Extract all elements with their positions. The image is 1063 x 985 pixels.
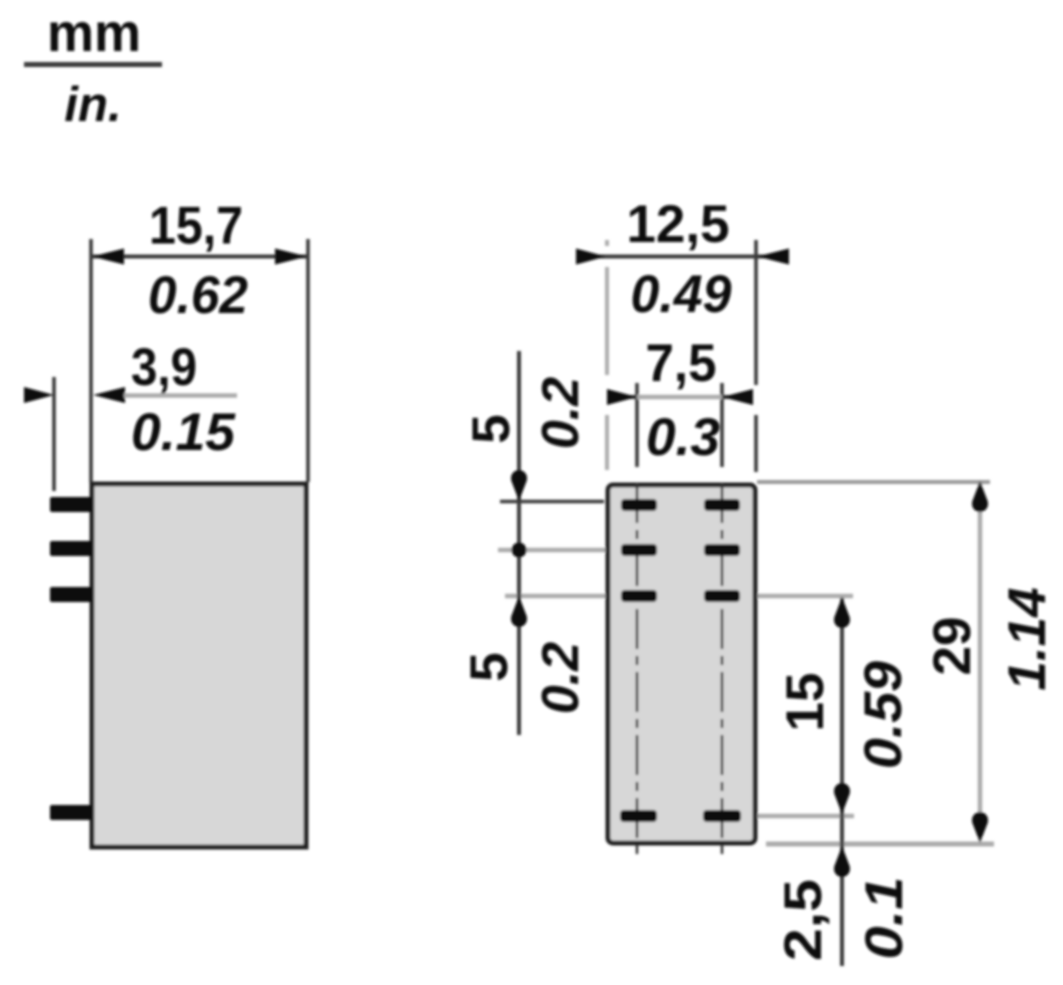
pin 4 side bbox=[50, 805, 92, 820]
row4 reference line gray bbox=[662, 814, 854, 819]
teardrop arrow down at row4 bbox=[834, 783, 850, 814]
arrow 7,5 right bbox=[722, 389, 753, 405]
svg-text:2,5: 2,5 bbox=[774, 879, 833, 961]
extension line 7,5 right bbox=[720, 383, 724, 467]
pin 1 side bbox=[50, 497, 92, 512]
pin 2 side bbox=[50, 541, 92, 556]
svg-text:in.: in. bbox=[64, 78, 121, 132]
pin pad row4 right bbox=[703, 810, 741, 822]
pin pad row1 left bbox=[621, 499, 657, 511]
pin pad row2 right bbox=[704, 544, 740, 556]
extension line 12,5 right (dashed) bbox=[754, 240, 758, 472]
svg-text:1.14: 1.14 bbox=[998, 587, 1057, 690]
svg-text:15,7: 15,7 bbox=[149, 197, 243, 256]
arrow 12,5 right (outside, pointing left) bbox=[757, 249, 789, 265]
svg-text:mm: mm bbox=[47, 3, 141, 63]
extension line left body edge bbox=[89, 239, 93, 482]
dimension 7,5 right tail bbox=[722, 395, 753, 399]
svg-text:5: 5 bbox=[462, 414, 521, 443]
dot at row2 bbox=[512, 543, 527, 558]
svg-text:0.62: 0.62 bbox=[148, 266, 248, 325]
svg-text:12,5: 12,5 bbox=[627, 195, 730, 254]
pin pad row3 left bbox=[621, 590, 657, 602]
dimension 7,5 left tail bbox=[608, 395, 637, 399]
extension line 12,5 left (gray dashed) bbox=[605, 240, 609, 470]
pin pad row1 right bbox=[704, 499, 740, 511]
svg-text:0.2: 0.2 bbox=[532, 377, 590, 449]
svg-text:15: 15 bbox=[776, 673, 835, 732]
svg-text:29: 29 bbox=[923, 617, 982, 676]
row3 reference line gray bbox=[505, 594, 853, 599]
pin pad row2 left bbox=[621, 544, 657, 556]
svg-text:5: 5 bbox=[460, 652, 519, 681]
extension line 7,5 left bbox=[635, 383, 639, 467]
arrow 12,5 left (outside, pointing right) bbox=[576, 249, 606, 265]
center line pin column left bbox=[636, 483, 639, 859]
dimension line 12,5 bbox=[577, 255, 788, 259]
svg-text:7,5: 7,5 bbox=[646, 334, 717, 393]
teardrop arrow down at bottom edge bbox=[972, 812, 988, 843]
svg-text:3,9: 3,9 bbox=[131, 338, 197, 397]
svg-text:0.15: 0.15 bbox=[131, 403, 237, 462]
extension line right body edge bbox=[306, 239, 310, 482]
dimension 3,9 tail line bbox=[124, 393, 237, 398]
svg-text:0.1: 0.1 bbox=[855, 877, 914, 960]
15/2,5 dimension line vertical bbox=[840, 598, 844, 966]
pin pad row3 right bbox=[704, 590, 740, 602]
svg-text:0.49: 0.49 bbox=[631, 265, 733, 324]
teardrop arrow up at bottom edge bbox=[834, 846, 850, 877]
svg-text:0.2: 0.2 bbox=[532, 642, 590, 714]
teardrop arrow down at row1 bbox=[511, 470, 527, 501]
fraction line bbox=[24, 62, 162, 67]
dimension 7,5 middle gray bbox=[637, 395, 722, 400]
row2 reference line gray bbox=[498, 548, 700, 553]
5/0.2 dimension line vertical bbox=[517, 351, 521, 735]
row1 reference tick line bbox=[500, 500, 604, 504]
top edge reference line gray bbox=[757, 480, 990, 484]
dimension 3,9 right arrow bbox=[93, 387, 125, 403]
arrow left bbox=[92, 249, 124, 265]
relay body side view bbox=[92, 484, 306, 847]
29 dimension line vertical gray bbox=[978, 484, 983, 840]
bottom edge reference line gray bbox=[766, 842, 994, 847]
relay body bottom view bbox=[608, 485, 755, 843]
pin pad row4 left bbox=[620, 810, 657, 822]
teardrop arrow up at top edge bbox=[972, 481, 988, 512]
center line pin column right bbox=[721, 483, 724, 859]
arrow right bbox=[275, 249, 307, 265]
arrow 7,5 left bbox=[607, 389, 637, 405]
extension line pin tip bbox=[52, 377, 56, 491]
dimension 3,9 left arrow bbox=[24, 387, 54, 403]
svg-text:0.59: 0.59 bbox=[854, 660, 913, 769]
teardrop arrow up at row3 bbox=[511, 596, 527, 627]
teardrop arrow up at row3 bbox=[834, 597, 850, 628]
pin 3 side bbox=[50, 587, 92, 602]
dimension line 15,7 bbox=[91, 255, 308, 259]
svg-text:0.3: 0.3 bbox=[646, 408, 720, 467]
